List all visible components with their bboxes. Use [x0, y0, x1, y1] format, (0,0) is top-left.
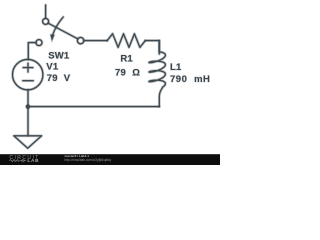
logo capacitor symbol — [20, 159, 26, 162]
footer black bar — [0, 154, 220, 165]
wire resistor to top-right corner — [145, 41, 159, 54]
inductor L1 coil — [149, 41, 165, 107]
svg-text:master3 / Lab4-1: master3 / Lab4-1 — [65, 154, 90, 158]
switch SW1 left terminal — [36, 40, 42, 46]
logo resistor zigzag — [9, 160, 19, 162]
switch SW1 top stub wire — [44, 5, 47, 18]
svg-text:R1: R1 — [120, 53, 133, 64]
switch SW1 toggle arrow arc — [52, 17, 63, 36]
svg-text:V1: V1 — [46, 62, 59, 73]
V1 plus sign — [23, 63, 33, 72]
svg-text:SW1: SW1 — [48, 51, 70, 62]
wire switch to resistor — [84, 39, 107, 42]
wire from switch left terminal to source top — [28, 43, 36, 60]
bottom horizontal wire — [28, 105, 159, 108]
switch SW1 right terminal — [77, 37, 83, 43]
svg-text:http://circuitlab.com/c/2yfj6b: http://circuitlab.com/c/2yfj6bq4bq — [65, 158, 112, 162]
voltage source V1 circle — [13, 59, 43, 89]
svg-text:L1: L1 — [170, 62, 182, 73]
svg-text:79 Ω: 79 Ω — [115, 67, 140, 78]
junction dot — [26, 105, 30, 109]
wire from source bottom to ground — [27, 90, 30, 136]
svg-text:LAB: LAB — [27, 158, 39, 163]
switch SW1 arrowhead — [50, 35, 54, 41]
svg-text:79 V: 79 V — [47, 73, 71, 84]
resistor R1 zigzag — [107, 34, 145, 48]
switch SW1 top terminal — [43, 18, 49, 24]
V1 minus sign — [23, 79, 33, 82]
switch SW1 blade — [48, 23, 77, 39]
ground symbol — [14, 136, 42, 148]
svg-text:790 mH: 790 mH — [170, 74, 210, 85]
